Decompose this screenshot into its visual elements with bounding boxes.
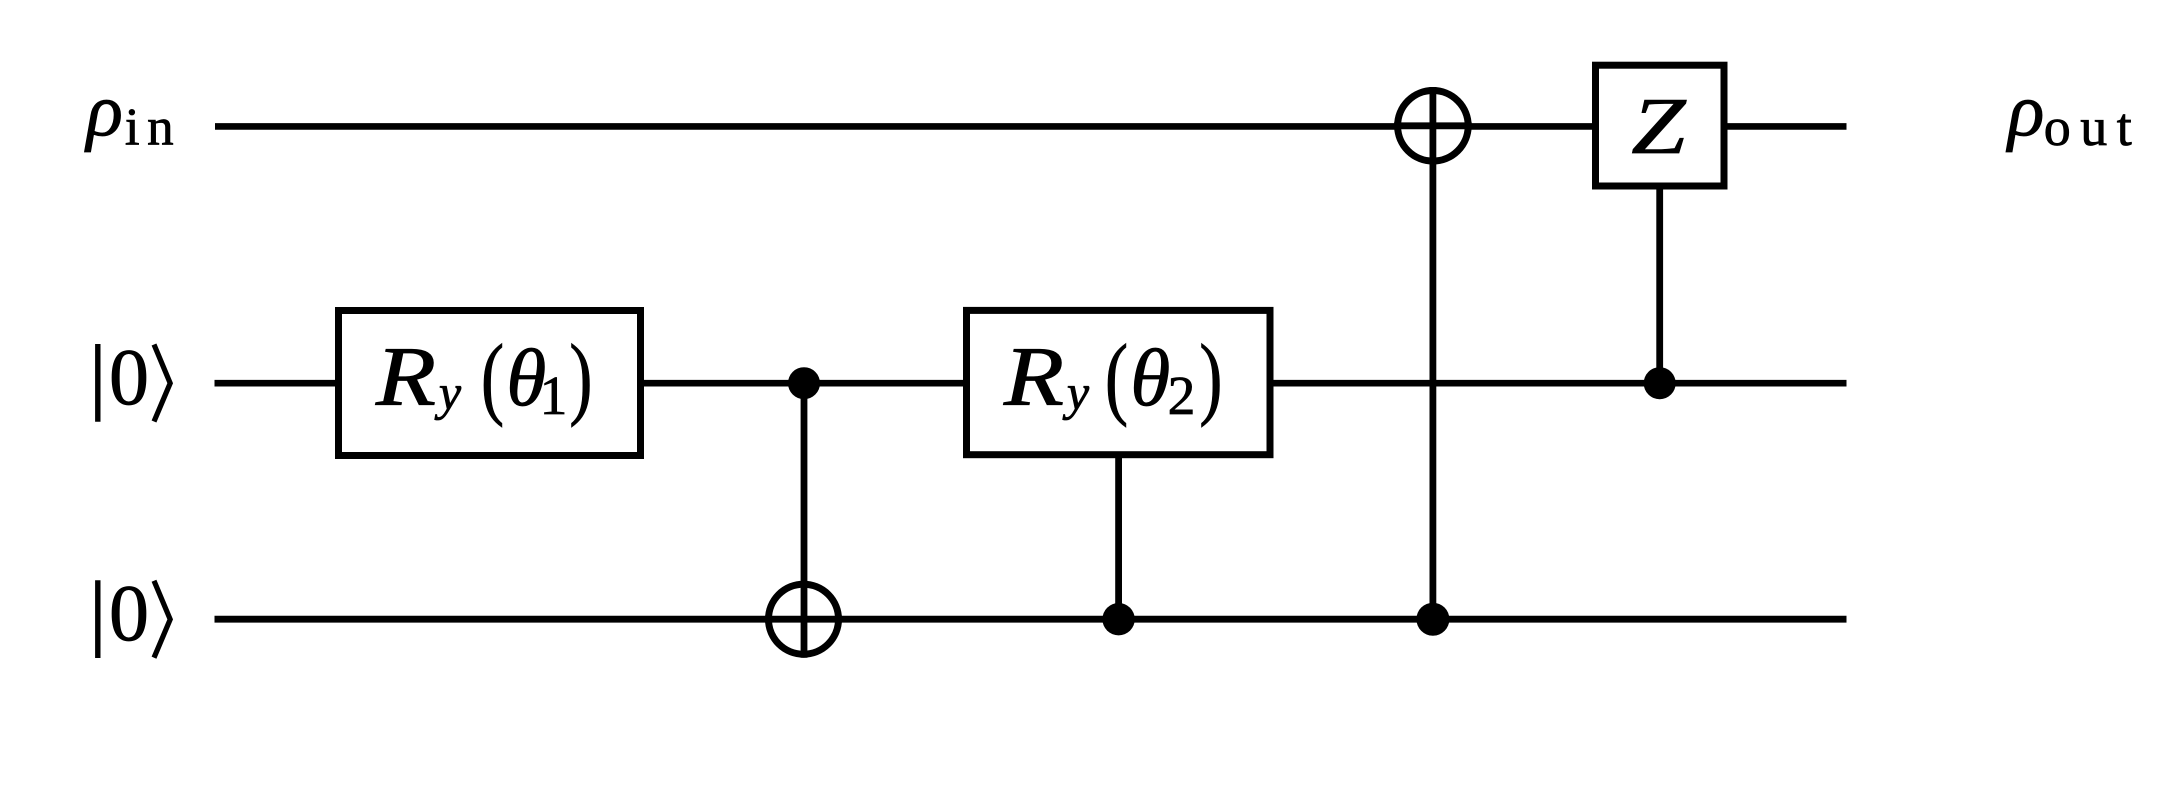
svg-text:R: R <box>375 330 436 424</box>
svg-text:θ: θ <box>1130 332 1170 423</box>
target cross horizontal on q0 <box>1394 122 1472 129</box>
gate box Z on q0 <box>1596 65 1725 186</box>
CNOT target circle on q0 (gate CX q2->q0) <box>1398 91 1469 162</box>
svg-text:(: ( <box>481 325 504 428</box>
vertical control line CX q1->q2 <box>801 383 808 658</box>
svg-text:): ) <box>569 325 592 428</box>
svg-text:y: y <box>434 364 462 420</box>
wire q1 (middle, |0>) <box>215 380 1847 387</box>
svg-text:ρ: ρ <box>84 69 122 153</box>
svg-text:R: R <box>1003 330 1064 424</box>
label |0> on q2 <box>95 580 100 658</box>
control dot on q2 for controlled-Ry(theta2) <box>1102 603 1134 635</box>
svg-text:in: in <box>125 99 181 157</box>
svg-text:ρ: ρ <box>2006 69 2044 153</box>
wire q2 (bottom, |0>) <box>215 616 1847 623</box>
control dot on q1 for CX q1->q2 <box>788 367 820 399</box>
wire q0 (top, rho_in) <box>215 123 1847 130</box>
control dot on q1 for CZ <box>1644 367 1676 399</box>
svg-text:2: 2 <box>1168 366 1196 427</box>
label |0> on q1 <box>95 344 100 422</box>
svg-text:0: 0 <box>109 334 149 422</box>
gate box Ry(theta2) on q1 <box>967 310 1271 454</box>
target cross horizontal on q2 <box>765 616 842 623</box>
svg-text:(: ( <box>1105 325 1128 428</box>
control dot on q2 for CX q2->q0 <box>1416 603 1449 636</box>
svg-text:): ) <box>1199 325 1222 428</box>
svg-text:Z: Z <box>1631 83 1687 171</box>
svg-text:0: 0 <box>109 570 149 658</box>
svg-text:1: 1 <box>540 366 568 427</box>
vertical control line CX q2->q0 <box>1430 87 1437 619</box>
svg-text:y: y <box>1062 364 1090 420</box>
CNOT target circle on q2 (gate CX q1->q2) <box>769 584 839 654</box>
vertical control line controlled-Ry(theta2) q2 control <box>1115 456 1122 619</box>
svg-text:out: out <box>2044 97 2142 157</box>
vertical control line CZ q1 control <box>1656 187 1663 383</box>
gate box Ry(theta1) on q1 <box>339 311 641 456</box>
